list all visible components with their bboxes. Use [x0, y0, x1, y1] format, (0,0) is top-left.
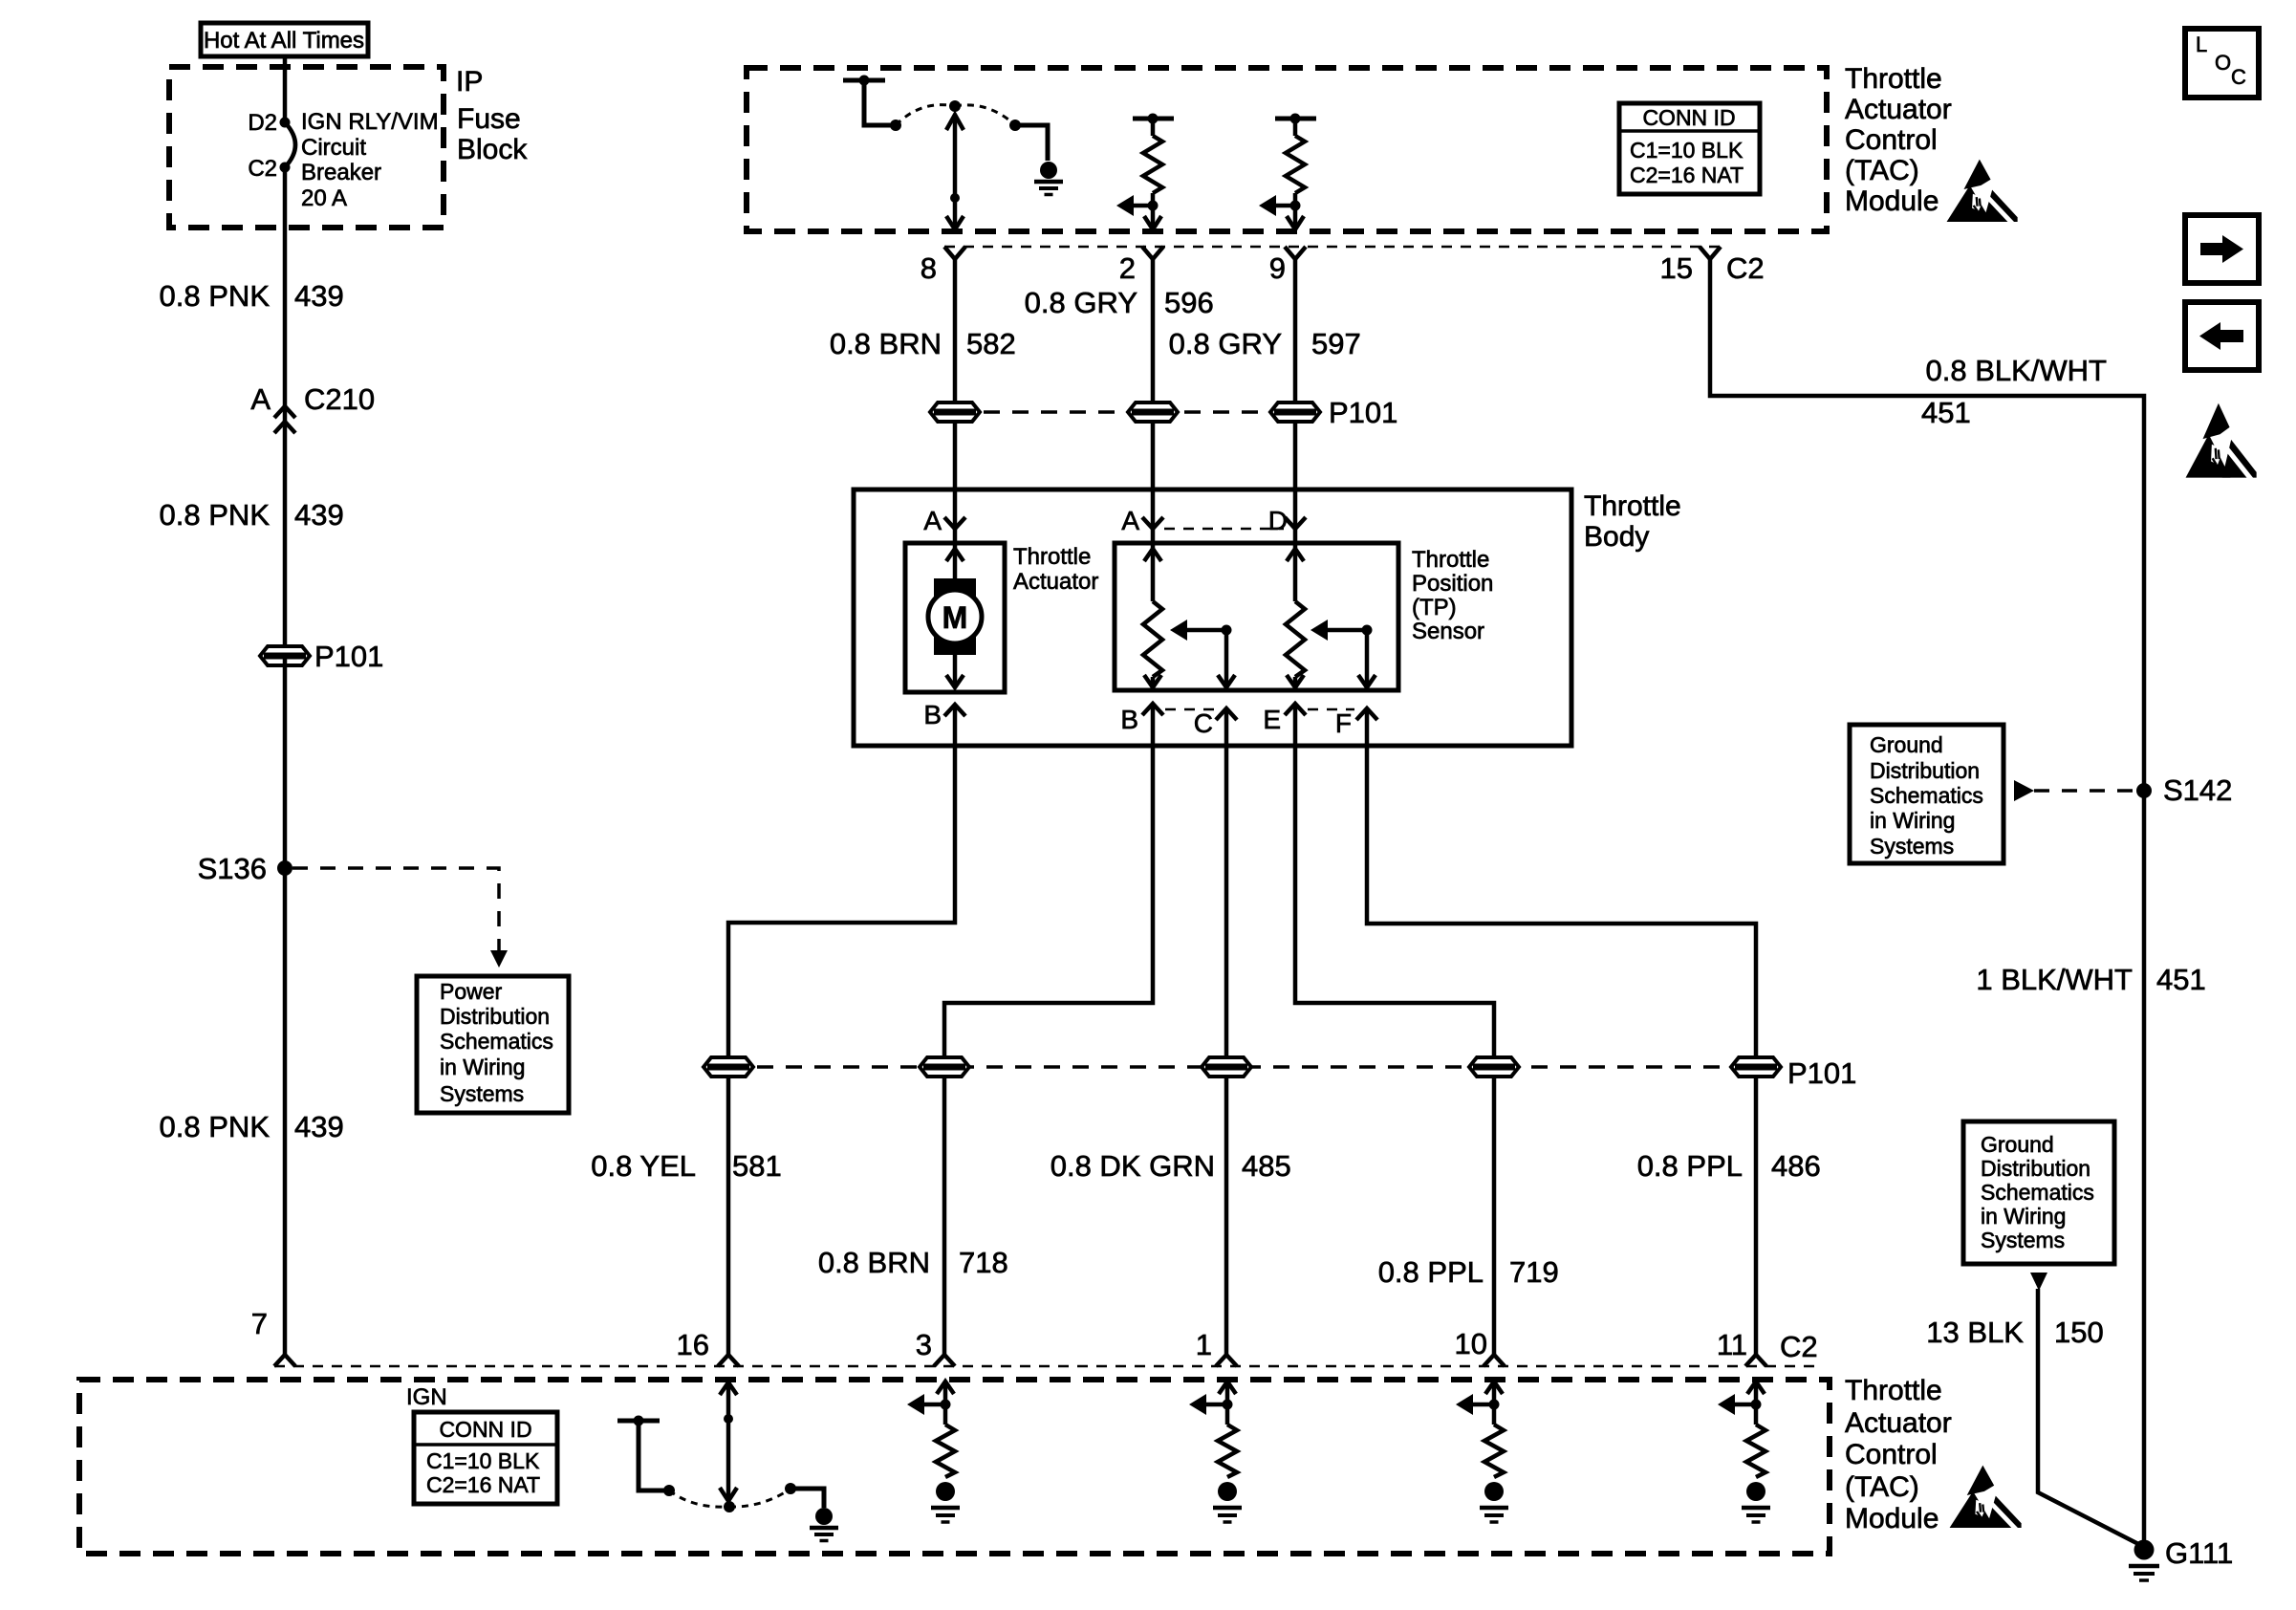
svg-text:0.8 PNK: 0.8 PNK — [160, 498, 271, 532]
dashed connector line B to C — [1165, 708, 1214, 711]
svg-text:451: 451 — [1921, 396, 1971, 429]
svg-text:(TP): (TP) — [1412, 595, 1457, 620]
splice S142 — [2136, 773, 2232, 807]
svg-text:Actuator: Actuator — [1845, 1407, 1952, 1439]
svg-text:Ground: Ground — [1870, 732, 1943, 757]
wire 0.8 DK GRN 485 (TP C to pin 1) — [1224, 708, 1229, 1355]
svg-text:Schematics: Schematics — [440, 1029, 553, 1054]
svg-text:451: 451 — [2156, 963, 2206, 996]
svg-text:582: 582 — [966, 327, 1016, 360]
TP sensor reference resistor (pin 2, top module) — [1116, 114, 1174, 230]
wire label 0.8 BLK/WHT 451 — [1921, 354, 2107, 429]
TP sensor pin F fork — [1335, 708, 1377, 738]
svg-text:C1=10 BLK: C1=10 BLK — [426, 1448, 540, 1473]
grommet row P101 (bottom) — [704, 1056, 1856, 1090]
svg-text:Circuit: Circuit — [301, 135, 366, 161]
pin 1 fork and label — [1196, 1328, 1237, 1366]
svg-text:D2: D2 — [248, 110, 277, 136]
svg-text:P101: P101 — [314, 640, 383, 673]
dashed reference arrow from S136 to Power Distribution box — [292, 868, 508, 968]
svg-text:719: 719 — [1509, 1255, 1559, 1289]
Power Distribution Schematics reference box — [417, 976, 569, 1113]
wire 0.8 GRY 596 (pin 2 to TP sensor A) — [1151, 259, 1156, 529]
TP sensor pin E fork — [1263, 704, 1306, 734]
svg-text:in Wiring: in Wiring — [1870, 808, 1955, 833]
circuit breaker (IGN RLY/VIM 20 A) — [285, 122, 295, 167]
svg-text:485: 485 — [1242, 1149, 1291, 1183]
svg-text:Actuator: Actuator — [1845, 94, 1952, 125]
svg-text:597: 597 — [1311, 327, 1361, 360]
svg-text:IGN RLY/VIM: IGN RLY/VIM — [301, 109, 439, 135]
pin 11 fork and label — [1717, 1328, 1818, 1366]
wire 0.8 BRN 718 (TP B to pin 3) — [944, 704, 1153, 1355]
LOC legend box — [2185, 29, 2259, 98]
ground symbol (top switch) — [1034, 162, 1063, 195]
TAC module dashed box (bottom) — [79, 1380, 1830, 1554]
Throttle Body box — [854, 490, 1681, 746]
IP Fuse Block dashed box — [169, 67, 444, 228]
wire label 0.8 GRY 597 — [1169, 327, 1361, 360]
svg-text:Throttle: Throttle — [1584, 490, 1681, 522]
svg-text:Distribution: Distribution — [440, 1004, 550, 1029]
svg-text:C2=16 NAT: C2=16 NAT — [426, 1472, 540, 1497]
CONN ID box (top) — [1619, 103, 1760, 194]
svg-text:C2: C2 — [1780, 1330, 1818, 1363]
svg-text:IGN: IGN — [406, 1384, 447, 1410]
TAC module title (bottom) — [1845, 1375, 1952, 1534]
wire label 0.8 PNK 439 (lower) — [160, 1110, 344, 1143]
pin 16 fork and label — [677, 1328, 739, 1366]
throttle actuator motor M — [928, 529, 982, 687]
connector C210 pin A — [250, 382, 375, 433]
svg-text:Block: Block — [457, 134, 528, 165]
svg-text:13 BLK: 13 BLK — [1926, 1316, 2024, 1349]
wire label 1 BLK/WHT 451 — [1976, 963, 2205, 996]
svg-text:B: B — [1120, 705, 1138, 734]
svg-text:Throttle: Throttle — [1845, 63, 1942, 95]
svg-text:Schematics: Schematics — [1870, 783, 1983, 808]
pin 8 motor drive arrow — [946, 100, 964, 229]
svg-text:S136: S136 — [198, 852, 267, 885]
wire label 0.8 PPL 486 — [1637, 1149, 1821, 1183]
legend box: arrow right — [2185, 215, 2259, 283]
throttle actuator pin B fork — [923, 700, 965, 729]
Ground Distribution reference box (upper) — [1850, 725, 2004, 863]
Ground Distribution reference box (lower) — [1963, 1121, 2114, 1264]
svg-text:C210: C210 — [304, 382, 375, 416]
svg-text:439: 439 — [294, 1110, 344, 1143]
pull-down resistor pin 1 — [1189, 1382, 1242, 1522]
svg-text:G111: G111 — [2165, 1536, 2233, 1570]
svg-text:CONN ID: CONN ID — [1642, 105, 1735, 130]
svg-text:1: 1 — [1196, 1328, 1212, 1361]
svg-text:0.8 YEL: 0.8 YEL — [591, 1149, 696, 1183]
wire label 0.8 DK GRN 485 — [1051, 1149, 1291, 1183]
svg-text:Distribution: Distribution — [1870, 758, 1980, 783]
svg-text:11: 11 — [1717, 1328, 1747, 1361]
pin 9 fork and label — [1269, 247, 1306, 285]
wire label 0.8 PPL 719 — [1378, 1255, 1559, 1289]
pin 7 terminal fork — [251, 1307, 295, 1366]
wire 0.8 GRY 597 (pin 9 to TP sensor D) — [1293, 259, 1298, 529]
pin 16 motor drive arrow — [720, 1382, 737, 1512]
terminal D2 — [248, 110, 290, 136]
ground G111 — [2129, 1536, 2233, 1580]
svg-text:Body: Body — [1584, 521, 1649, 553]
svg-text:486: 486 — [1771, 1149, 1821, 1183]
svg-text:8: 8 — [921, 251, 937, 285]
pin 10 fork and label — [1455, 1327, 1505, 1366]
wire label 0.8 BRN 582 — [830, 327, 1016, 360]
svg-text:Power: Power — [440, 979, 503, 1004]
label box "Hot At All Times" — [201, 23, 368, 56]
wire label 0.8 YEL 581 — [591, 1149, 781, 1183]
throttle body pin A (actuator) fork — [923, 506, 965, 535]
svg-text:0.8 PPL: 0.8 PPL — [1637, 1149, 1743, 1183]
svg-text:1 BLK/WHT: 1 BLK/WHT — [1976, 963, 2133, 996]
svg-text:0.8 DK GRN: 0.8 DK GRN — [1051, 1149, 1215, 1183]
svg-text:L: L — [2196, 33, 2207, 56]
TAC module title (top) — [1845, 63, 1952, 217]
ESD sensitivity symbol (bottom module) — [1950, 1466, 2022, 1532]
svg-text:Throttle: Throttle — [1845, 1375, 1942, 1406]
circuit breaker label — [301, 109, 439, 211]
svg-text:439: 439 — [294, 279, 344, 313]
svg-text:2: 2 — [1119, 251, 1136, 285]
wire 0.8 PNK 439 (C210 to P101) — [283, 404, 288, 656]
svg-text:Distribution: Distribution — [1981, 1156, 2090, 1181]
wire 0.8 PNK 439 (P101 to S136) — [283, 656, 288, 868]
svg-text:0.8 BLK/WHT: 0.8 BLK/WHT — [1926, 354, 2108, 387]
throttle body pin A (TP sensor) fork — [1121, 506, 1163, 535]
svg-text:Position: Position — [1412, 571, 1493, 597]
wire 0.8 PPL 719 (TP E to pin 10) — [1295, 704, 1494, 1355]
ESD sensitivity symbol (right margin) — [2186, 403, 2257, 483]
TP sensor potentiometer 2 — [1286, 529, 1305, 687]
dashed reference arrow to S142 — [2014, 780, 2134, 801]
svg-text:C: C — [1194, 708, 1213, 738]
wire 0.8 PPL 486 (TP F to pin 11) — [1367, 708, 1756, 1355]
motor control switch (bottom TAC module) — [617, 1416, 824, 1509]
svg-text:Module: Module — [1845, 1503, 1939, 1534]
svg-text:Throttle: Throttle — [1013, 544, 1091, 570]
svg-text:Systems: Systems — [1870, 834, 1954, 859]
pin 3 fork and label — [916, 1328, 955, 1366]
TP sensor wiper 1 — [1170, 620, 1235, 687]
svg-text:Ground: Ground — [1981, 1132, 2054, 1157]
svg-text:C2: C2 — [1726, 251, 1765, 285]
svg-text:IP: IP — [456, 66, 483, 98]
svg-text:O: O — [2215, 51, 2231, 75]
pin 8 fork and label — [921, 247, 965, 285]
pull-down resistor pin 3 — [907, 1382, 960, 1522]
ESD sensitivity symbol (top module) — [1947, 160, 2018, 226]
svg-text:7: 7 — [251, 1307, 268, 1340]
wire label 0.8 PNK 439 (upper) — [160, 279, 344, 313]
pull-down resistor pin 11 — [1718, 1382, 1770, 1522]
wire: battery feed from Hot At All Times into fuse block — [283, 56, 288, 122]
svg-text:A: A — [1121, 506, 1139, 535]
motor control switch (top TAC module) — [843, 76, 1048, 162]
svg-text:0.8 PNK: 0.8 PNK — [160, 279, 271, 313]
legend box: arrow left — [2185, 302, 2259, 370]
svg-text:Throttle: Throttle — [1412, 547, 1489, 573]
svg-text:C: C — [2231, 65, 2246, 89]
svg-text:in Wiring: in Wiring — [440, 1055, 525, 1079]
pin 2 fork and label — [1119, 247, 1163, 285]
wire 0.8 PNK 439 (S136 to TAC pin 7) — [283, 868, 288, 1355]
svg-text:S142: S142 — [2163, 773, 2232, 807]
svg-text:Hot At All Times: Hot At All Times — [204, 28, 364, 54]
svg-text:M: M — [942, 600, 968, 635]
svg-text:0.8 PNK: 0.8 PNK — [160, 1110, 271, 1143]
pull-down resistor pin 10 — [1456, 1382, 1508, 1522]
TAC module dashed box (top) — [747, 68, 1827, 231]
wire 0.8 YEL 581 (actuator B to pin 16) — [728, 705, 955, 1355]
svg-text:0.8 PPL: 0.8 PPL — [1378, 1255, 1484, 1289]
svg-text:C1=10 BLK: C1=10 BLK — [1630, 138, 1744, 163]
svg-text:16: 16 — [677, 1328, 709, 1361]
svg-text:Control: Control — [1845, 124, 1938, 156]
svg-text:D: D — [1268, 506, 1288, 535]
svg-text:in Wiring: in Wiring — [1981, 1204, 2066, 1229]
svg-text:0.8 BRN: 0.8 BRN — [818, 1246, 930, 1279]
svg-text:P101: P101 — [1329, 396, 1397, 429]
svg-text:0.8 GRY: 0.8 GRY — [1025, 286, 1137, 319]
throttle body pin D fork — [1268, 506, 1306, 535]
svg-text:Module: Module — [1845, 185, 1939, 217]
svg-text:150: 150 — [2054, 1316, 2104, 1349]
TP sensor pin C fork — [1194, 708, 1237, 738]
svg-text:Control: Control — [1845, 1439, 1938, 1470]
svg-text:A: A — [250, 382, 271, 416]
wire label 0.8 PNK 439 (middle) — [160, 498, 344, 532]
svg-text:A: A — [923, 506, 942, 535]
wire 13 BLK 150 (ground box to G111) — [2030, 1273, 2144, 1547]
svg-text:(TAC): (TAC) — [1845, 155, 1919, 186]
TP sensor pin B fork — [1120, 704, 1163, 734]
pin 15 fork and label — [1660, 247, 1765, 285]
svg-text:718: 718 — [959, 1246, 1008, 1279]
svg-text:Actuator: Actuator — [1013, 569, 1098, 595]
splice S136 — [198, 852, 292, 885]
svg-text:C2=16 NAT: C2=16 NAT — [1630, 163, 1744, 187]
svg-text:Schematics: Schematics — [1981, 1180, 2094, 1205]
svg-text:439: 439 — [294, 498, 344, 532]
TP sensor wiper 2 — [1310, 620, 1375, 687]
wire 0.8 BLK/WHT 451 (pin 15 to G111) — [1710, 259, 2144, 1545]
TP sensor reference resistor (pin 9, top module) — [1259, 114, 1316, 230]
svg-text:(TAC): (TAC) — [1845, 1471, 1919, 1503]
svg-text:B: B — [923, 700, 942, 729]
svg-text:3: 3 — [916, 1328, 932, 1361]
pass-through grommet P101 (left) — [260, 640, 383, 673]
connector C2 dashed line (top module) — [944, 246, 1722, 249]
svg-text:0.8 BRN: 0.8 BRN — [830, 327, 942, 360]
svg-text:Sensor: Sensor — [1412, 619, 1484, 644]
svg-text:10: 10 — [1455, 1327, 1487, 1360]
svg-text:E: E — [1263, 705, 1281, 734]
wire 0.8 PNK 439 (fuse block to C210) — [283, 167, 288, 404]
grommet row P101 (top) — [930, 396, 1397, 429]
wire label 0.8 BRN 718 — [818, 1246, 1008, 1279]
svg-text:15: 15 — [1660, 251, 1693, 285]
terminal C2 — [248, 156, 290, 182]
ground symbol (bottom switch) — [810, 1508, 838, 1541]
TP sensor potentiometer 1 — [1143, 529, 1162, 687]
dashed connector line A to D — [1164, 528, 1284, 531]
svg-text:Systems: Systems — [1981, 1228, 2065, 1252]
svg-text:20 A: 20 A — [301, 185, 347, 211]
dashed connector line E to F — [1308, 708, 1354, 711]
Throttle Actuator box — [905, 543, 1098, 692]
svg-text:P101: P101 — [1787, 1056, 1856, 1090]
svg-text:581: 581 — [732, 1149, 782, 1183]
svg-text:9: 9 — [1269, 251, 1286, 285]
wire label 0.8 GRY 596 — [1025, 286, 1214, 319]
svg-text:C2: C2 — [248, 156, 277, 182]
connector dashed line (bottom module) — [274, 1365, 1821, 1368]
svg-text:596: 596 — [1164, 286, 1214, 319]
svg-text:CONN ID: CONN ID — [439, 1417, 531, 1442]
svg-text:Systems: Systems — [440, 1081, 524, 1106]
IP Fuse Block label — [456, 66, 528, 165]
CONN ID box (bottom) — [414, 1412, 557, 1504]
svg-text:F: F — [1335, 708, 1352, 738]
svg-text:Breaker: Breaker — [301, 160, 381, 185]
svg-text:0.8 GRY: 0.8 GRY — [1169, 327, 1282, 360]
wire 0.8 BRN 582 (pin 8 to throttle body A) — [953, 259, 958, 529]
svg-text:Fuse: Fuse — [457, 103, 521, 135]
wire label 13 BLK 150 — [1926, 1316, 2103, 1349]
Throttle Position Sensor box — [1115, 543, 1493, 690]
